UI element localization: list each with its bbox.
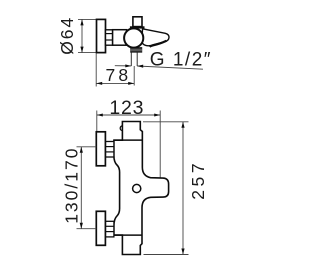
dim Ø64 dimension line bbox=[81, 19, 83, 52]
connector nut (side view) bbox=[106, 30, 113, 45]
spout bbox=[142, 29, 169, 46]
svg-text:Ø64: Ø64 bbox=[57, 16, 77, 55]
svg-text:G 1/2″: G 1/2″ bbox=[150, 50, 212, 71]
outlet centre extension line bbox=[133, 66, 135, 86]
dim G 1/2 left leader bbox=[115, 65, 132, 67]
diverter button base bbox=[130, 26, 145, 28]
dim 130/170 dimension line bbox=[80, 147, 82, 229]
upper wall flange bbox=[96, 132, 105, 166]
wall flange (side view) bbox=[97, 19, 106, 52]
outlet pipe left edge bbox=[130, 52, 132, 66]
lower wall flange bbox=[96, 211, 105, 245]
spout lip bbox=[150, 41, 167, 47]
outlet pipe right edge bbox=[136, 52, 138, 66]
upper S-union bbox=[105, 142, 114, 158]
dim 78 dimension line bbox=[96, 82, 134, 84]
dim 130/170 upper extension line bbox=[77, 146, 97, 148]
body top joint line bbox=[114, 139, 142, 141]
svg-text:130/170: 130/170 bbox=[61, 147, 81, 224]
dim 257 upper extension line bbox=[143, 121, 189, 123]
aerator block bbox=[130, 47, 142, 52]
svg-text:257: 257 bbox=[188, 160, 208, 200]
body (side view) bbox=[113, 30, 127, 46]
dim 257 lower extension line bbox=[144, 254, 189, 256]
knob circle (side view) bbox=[124, 28, 143, 47]
dim 130/170 lower extension line bbox=[77, 228, 97, 230]
mixer body outline (front view) bbox=[114, 122, 169, 255]
dim Ø64 arrow down bbox=[80, 47, 83, 53]
svg-text:123: 123 bbox=[109, 97, 144, 119]
svg-text:78: 78 bbox=[106, 65, 132, 85]
dim 123 left extension line bbox=[96, 111, 98, 132]
dim Ø64 extension line bottom bbox=[78, 52, 97, 54]
diverter button square bbox=[133, 17, 142, 27]
dim 123 dimension line bbox=[97, 114, 160, 116]
dim G 1/2 right leader bbox=[137, 66, 203, 69]
dim 78 extension line (wall) bbox=[95, 54, 97, 87]
dim Ø64 arrow up bbox=[80, 19, 83, 25]
dim Ø64 extension line top bbox=[78, 18, 97, 20]
body bottom joint line bbox=[114, 234, 142, 236]
lower S-union bbox=[105, 221, 114, 237]
cartridge screw circle bbox=[133, 184, 141, 192]
outlet centre line (front view) bbox=[159, 111, 161, 189]
dim 257 dimension line bbox=[182, 122, 184, 255]
safety button bump bbox=[120, 126, 125, 131]
